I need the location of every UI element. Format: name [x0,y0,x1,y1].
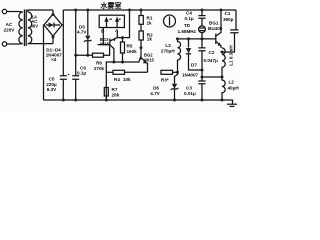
wire bridge left vertex down to bottom rail [43,25,46,100]
inductor L2 [222,77,225,100]
water tank box [99,15,124,27]
wire bridge right vertex to +rail [62,10,63,25]
svg-text:40μH: 40μH [228,86,240,91]
transistor BG1 BU406 base bar [215,34,217,45]
node BG1 collector rail [220,9,223,12]
node x222 y77 [221,76,224,79]
node R3 right [176,71,179,74]
node L2 bottom [221,99,224,102]
svg-text:10k: 10k [123,77,131,82]
wire secondary bottom to bridge [28,43,53,45]
wire rail branch x=88 with zener D5 [87,10,89,55]
svg-text:0.1μ: 0.1μ [185,16,194,21]
svg-text:9015: 9015 [145,58,155,63]
svg-text:C4: C4 [186,11,192,16]
bridge bottom stub [52,36,54,44]
svg-text:36V: 36V [31,23,39,28]
svg-text:0.01μ: 0.01μ [184,91,196,96]
resistor R7 [104,88,108,97]
wire BG3 base [98,44,110,46]
node D6 bottom [173,99,176,102]
svg-text:4.7V: 4.7V [150,91,160,96]
svg-text:C5: C5 [49,76,55,81]
svg-text:R3*: R3* [161,78,169,83]
resistor R1 [140,10,142,16]
bridge top stub [52,10,54,14]
svg-text:TD: TD [184,23,191,28]
node collector junction [112,61,115,64]
svg-text:C2: C2 [209,50,215,55]
diode D7 [189,39,203,70]
electrode probe A [115,17,119,22]
BG3 emitter (up to A) [110,31,117,41]
node D5 rail [86,9,89,12]
BG1 collector to rail [216,10,221,36]
inductor L3 [178,39,181,72]
resistor R2 [139,31,143,40]
node BG2 collector [140,46,143,49]
svg-text:AC: AC [6,22,13,27]
wire node55 [76,54,93,56]
node R7 bottom [105,99,108,102]
resistor R4 [106,71,113,73]
zener diode D6 [175,72,178,100]
svg-text:270k: 270k [94,66,105,71]
AC source terminal top [2,9,6,13]
resistor R3* [161,70,173,74]
inductor L1 [222,48,225,77]
svg-text:9015: 9015 [100,42,110,47]
capacitor C6 branch wire [75,10,77,100]
wire oscillator base line to BG1 [178,38,216,40]
svg-text:水雾室: 水雾室 [101,1,122,10]
node x=88 y=55 [86,54,89,57]
bridge rectifier D1-D4 diamond [44,14,62,36]
svg-text:160k: 160k [127,49,138,54]
node bridge top [52,13,55,16]
BG1 emitter [216,42,221,49]
bottom rail [44,99,223,101]
svg-text:D7: D7 [191,63,197,68]
node C6 top rail [74,9,77,12]
svg-text:R4: R4 [114,77,120,82]
svg-text:L1 0.3mH: L1 0.3mH [229,45,234,66]
ground [222,100,233,104]
diode inside bridge [46,24,60,26]
node x202 y77 [201,76,204,79]
electrode probe B [104,17,108,22]
node R5 top [121,36,124,39]
svg-text:1k: 1k [147,20,153,25]
node TD bottom [201,37,204,40]
svg-text:BG1: BG1 [209,21,219,26]
svg-text:1.65MHz: 1.65MHz [178,29,197,34]
capacitor C2 [201,39,203,70]
node C3 bottom [201,99,204,102]
BG2 emitter [141,58,147,72]
transformer T primary coil [19,12,23,45]
node C2 bottom [201,69,204,72]
svg-text:R6: R6 [96,61,102,66]
node C6 at wire55 [74,54,77,57]
svg-text:C3: C3 [186,86,192,91]
transformer T secondary coil [28,12,32,44]
wire [7,43,19,45]
node C4 rail [201,9,204,12]
annotation circled 1 [164,15,176,27]
svg-text:4.7V: 4.7V [77,29,87,34]
wire probe B down to base wire [102,28,104,45]
svg-text:R5: R5 [127,44,133,49]
svg-text:270μH: 270μH [161,48,175,53]
wire secondary top to bridge [28,10,53,12]
wire R2 to BG2 collector [140,40,142,51]
svg-text:0.047μ: 0.047μ [204,58,218,63]
top +V rail [63,9,236,11]
transistor BG3 9015 [109,39,111,47]
svg-text:220μ: 220μ [46,82,57,87]
svg-text:1k: 1k [147,37,153,42]
transformer core [24,10,26,47]
capacitor C6 plates [72,76,79,80]
node bridge bottom [52,36,55,39]
svg-text:L2: L2 [229,80,235,85]
svg-text:220V: 220V [4,28,16,33]
wire A node to rail branch [117,10,129,38]
zener diode D5 symbol [85,36,90,41]
node C1 bottom at emitter [221,51,224,54]
svg-text:×4: ×4 [51,57,57,62]
resistor R6 [93,53,104,57]
wire BG3 collector to BG2 base [114,57,141,63]
node C6 bottom [74,99,77,102]
capacitor C5 branch wire [62,25,64,100]
node R1 top [140,9,143,12]
node D7 top [187,37,190,40]
AC source terminal bottom [2,42,6,46]
svg-text:BU406: BU406 [208,26,223,31]
capacitor C3 [201,77,203,100]
node rail x=129.5 [128,9,131,12]
svg-text:1N4007: 1N4007 [182,73,199,78]
svg-text:D6: D6 [153,86,159,91]
node L3 top [176,37,179,40]
svg-text:20k: 20k [112,93,120,98]
resistor R5 [122,38,124,42]
svg-text:6.3V: 6.3V [47,87,57,92]
wire C2 node to y77 [202,70,222,77]
capacitor C4 [201,10,203,26]
node C5 bottom [62,99,65,102]
BG3 collector [106,45,114,100]
svg-text:390p: 390p [223,17,234,22]
transducer TD [199,26,206,33]
svg-text:C1: C1 [225,11,231,16]
svg-text:0.1μ: 0.1μ [77,71,86,76]
capacitor C5 plates [60,76,67,80]
capacitor C1 [222,10,236,52]
svg-text:R7: R7 [112,87,118,92]
node R5 bottom [121,61,124,64]
water level marks [110,18,121,20]
wire [7,11,19,13]
transistor BG2 9015 [140,51,142,59]
